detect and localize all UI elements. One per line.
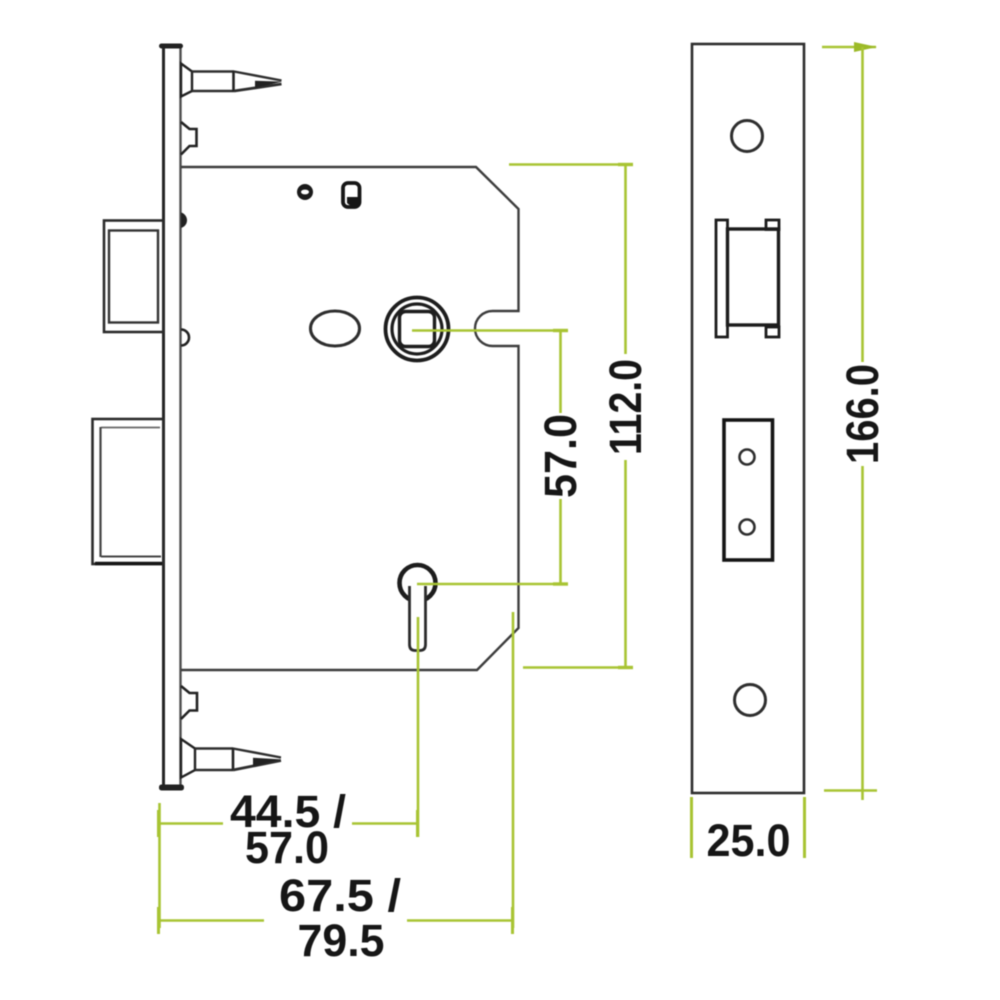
svg-text:166.0: 166.0: [837, 364, 888, 464]
svg-text:67.5 /: 67.5 /: [279, 870, 402, 921]
svg-text:79.5: 79.5: [298, 915, 385, 966]
svg-text:112.0: 112.0: [600, 359, 651, 455]
svg-text:57.0: 57.0: [535, 414, 586, 498]
svg-text:25.0: 25.0: [707, 815, 791, 866]
svg-text:57.0: 57.0: [245, 822, 329, 873]
